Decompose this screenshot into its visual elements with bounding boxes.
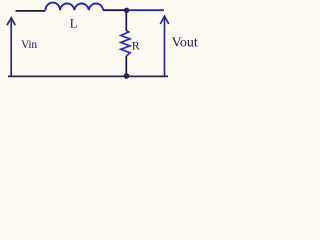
node top junction xyxy=(124,8,129,13)
arrow Vout shaft xyxy=(164,17,166,75)
svg-text:Vout: Vout xyxy=(172,36,198,51)
arrow Vout head xyxy=(160,16,169,24)
wire bottom rail xyxy=(8,75,168,77)
resistor R xyxy=(121,11,130,76)
svg-text:L: L xyxy=(70,17,78,31)
arrow Vin shaft xyxy=(10,19,12,76)
svg-text:R: R xyxy=(132,38,140,52)
wire top-right segment xyxy=(127,9,165,11)
svg-text:Vin: Vin xyxy=(21,39,37,51)
wire top-middle segment xyxy=(103,9,126,11)
arrow Vin head xyxy=(7,18,15,25)
wire top-left segment xyxy=(16,10,46,12)
node bottom junction xyxy=(124,73,130,79)
inductor L xyxy=(46,3,104,11)
